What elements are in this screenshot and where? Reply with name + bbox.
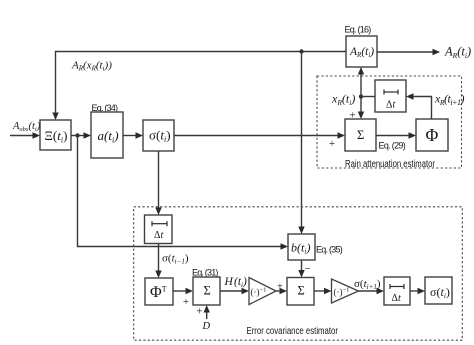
wire Xi to a(t_i) bbox=[71, 132, 91, 138]
gain T2 (.)^-1 bbox=[332, 279, 359, 303]
summer Sigma2 bbox=[287, 278, 314, 306]
dashed box error covariance estimator bbox=[134, 207, 463, 340]
wire Sigma1 to T1 bbox=[220, 288, 249, 294]
gain T1 (.)^-1 bbox=[249, 278, 276, 305]
wire D input up into Sigma1 bbox=[204, 305, 210, 319]
svg-text:Error covariance estimator: Error covariance estimator bbox=[247, 326, 339, 337]
svg-text:Eq. (35): Eq. (35) bbox=[316, 245, 343, 255]
wire junction down and right to b(t_i) bbox=[78, 136, 289, 250]
wire A_R output right bbox=[377, 49, 440, 55]
node junction x_R bbox=[359, 94, 363, 98]
dashed box rain attenuation estimator bbox=[317, 76, 462, 168]
svg-text:Δt: Δt bbox=[392, 293, 401, 304]
svg-text:Σ: Σ bbox=[357, 128, 364, 142]
svg-text:σ(ti): σ(ti) bbox=[149, 128, 171, 144]
box Xi bbox=[40, 120, 71, 150]
wire x_R vertical up into A_R and down into rain Sigma bbox=[358, 67, 364, 119]
svg-text:+: + bbox=[329, 138, 335, 150]
box a(t_i) bbox=[91, 112, 123, 158]
svg-text:a(ti): a(ti) bbox=[98, 128, 119, 144]
svg-text:−: − bbox=[304, 263, 310, 275]
wire a to sigma bbox=[123, 132, 143, 138]
svg-text:Φ: Φ bbox=[426, 125, 439, 145]
wire rain Sigma to Phi bbox=[376, 132, 416, 138]
svg-text:σ(ti): σ(ti) bbox=[430, 285, 450, 300]
svg-text:AR(ti): AR(ti) bbox=[444, 45, 471, 60]
box sigma(t_i) bbox=[143, 120, 174, 151]
box b(t_i) bbox=[288, 234, 315, 260]
svg-text:Δt: Δt bbox=[386, 100, 395, 111]
delay D3 bbox=[384, 277, 410, 305]
svg-text:b(ti): b(ti) bbox=[291, 241, 310, 256]
summer rain Sigma bbox=[345, 119, 376, 151]
wire sigma to rain Sigma bbox=[174, 132, 345, 138]
svg-text:Σ: Σ bbox=[298, 284, 305, 298]
svg-text:Eq. (16): Eq. (16) bbox=[345, 25, 372, 35]
wire delay1 down to PhiT bbox=[155, 244, 161, 279]
wire T1 to Sigma2 bbox=[276, 288, 287, 294]
svg-text:Rain attenuation estimator: Rain attenuation estimator bbox=[345, 159, 436, 170]
wire junction to delay2 bbox=[361, 96, 375, 98]
svg-text:Σ: Σ bbox=[204, 284, 211, 298]
svg-text:D: D bbox=[202, 321, 211, 332]
svg-text:Eq. (29): Eq. (29) bbox=[379, 141, 406, 151]
svg-text:+: + bbox=[196, 306, 202, 318]
wire PhiT to Sigma1 bbox=[173, 288, 193, 294]
svg-text:+: + bbox=[277, 282, 283, 293]
box A_R(t_i) bbox=[346, 36, 377, 67]
svg-text:AR(ti): AR(ti) bbox=[349, 46, 374, 59]
box Phi bbox=[416, 119, 448, 151]
wire b down into Sigma2 bbox=[298, 260, 304, 278]
delay D2 bbox=[375, 80, 406, 112]
wire input A_obs bbox=[10, 132, 40, 138]
box PhiT bbox=[145, 278, 173, 305]
svg-text:xR(ti): xR(ti) bbox=[331, 92, 355, 107]
wire delay3 to sigma out bbox=[410, 288, 425, 294]
svg-text:H(ti): H(ti) bbox=[224, 276, 248, 289]
svg-text:xR(ti+1): xR(ti+1) bbox=[434, 92, 465, 108]
wire junction down to b(t_i) bbox=[298, 52, 304, 235]
svg-text:+: + bbox=[183, 296, 189, 308]
delay D1 bbox=[145, 215, 173, 244]
svg-text:Ξ(ti): Ξ(ti) bbox=[45, 128, 68, 144]
svg-text:Δt: Δt bbox=[154, 230, 163, 241]
wire Phi up to delay2 bbox=[406, 93, 432, 119]
wire feedback A_R to Xi (top) bbox=[52, 52, 346, 121]
box sigma(t_i) out bbox=[425, 277, 452, 304]
node junction after Xi bbox=[75, 133, 79, 137]
node junction on top feedback line bbox=[299, 49, 303, 53]
svg-text:Eq. (31): Eq. (31) bbox=[192, 268, 218, 278]
summer Sigma1 bbox=[193, 277, 220, 305]
wire Sigma2 to T2 bbox=[314, 288, 332, 294]
wire sigma down to delay1 bbox=[155, 151, 161, 215]
wire T2 to delay3 bbox=[358, 288, 384, 294]
